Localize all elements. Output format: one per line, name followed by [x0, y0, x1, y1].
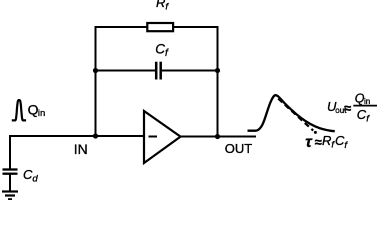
ground	[2, 192, 18, 200]
svg-text:in: in	[364, 97, 370, 106]
node junction Cf left	[93, 68, 98, 73]
wire output	[180, 136, 256, 138]
node IN junction	[93, 133, 98, 138]
wire Cf branch right	[161, 70, 218, 72]
wire input horizontal	[10, 135, 144, 137]
svg-text:in: in	[38, 108, 45, 119]
svg-text:≈: ≈	[344, 100, 351, 115]
label tau formula	[305, 133, 348, 151]
wire left feedback vertical	[95, 26, 97, 136]
node OUT junction	[215, 134, 220, 139]
capacitor Cf	[156, 62, 161, 80]
wire right feedback vertical	[217, 26, 219, 136]
dot marker at tau intersection	[314, 131, 317, 134]
op-amp U1	[144, 111, 181, 163]
svg-text:≈: ≈	[315, 135, 322, 150]
dashed tangent line (decay slope)	[278, 99, 313, 131]
node junction Cf right	[215, 68, 220, 73]
resistor Rf	[147, 23, 173, 31]
wire Cd to ground	[9, 174, 11, 192]
svg-text:IN: IN	[74, 141, 88, 157]
svg-text:OUT: OUT	[225, 141, 253, 156]
wire Cf branch left	[96, 70, 157, 72]
wire top feedback branch	[96, 26, 218, 28]
capacitor Cd	[3, 170, 18, 174]
input charge pulse symbol	[12, 100, 26, 120]
label Uout formula	[327, 92, 377, 125]
output pulse waveform	[248, 95, 335, 131]
wire Cd vertical	[9, 135, 11, 170]
